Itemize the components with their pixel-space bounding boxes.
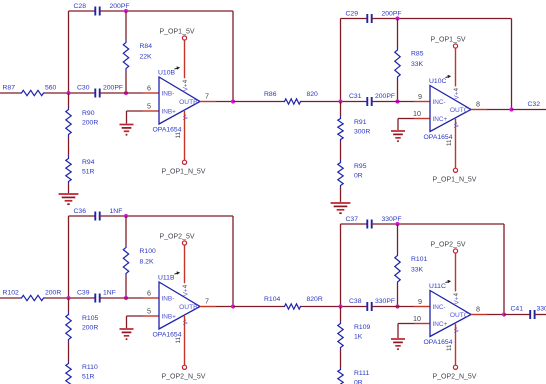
wire IN+ to ground stage 4 — [398, 323, 414, 325]
junction output node stage 4 — [502, 312, 506, 316]
svg-text:C32: C32 — [528, 101, 541, 108]
wire R85 bottom lead — [397, 80, 399, 102]
svg-text:1NF: 1NF — [110, 208, 123, 215]
svg-text:R90: R90 — [82, 110, 95, 117]
svg-text:300R: 300R — [354, 129, 370, 136]
power port circle P_OP2_5V stage 4 — [453, 249, 457, 253]
wire top feedback right segment stage 2 — [372, 18, 512, 20]
svg-text:R100: R100 — [140, 248, 156, 255]
resistor R84 — [123, 40, 128, 71]
svg-text:11: 11 — [446, 139, 453, 146]
ground chain stage 2 — [331, 202, 351, 204]
svg-text:V-: V- — [454, 327, 461, 333]
svg-text:INC-: INC- — [433, 99, 446, 106]
wire C39 to IN- pin — [100, 297, 143, 299]
junction output node stage 2 — [509, 107, 513, 111]
svg-text:1K: 1K — [354, 334, 363, 341]
capacitor C28 — [94, 7, 96, 16]
wire top feedback left segment stage 4 — [341, 223, 368, 225]
svg-text:10: 10 — [413, 314, 421, 323]
svg-text:C39: C39 — [77, 290, 90, 297]
wire V- pin stage 3 — [184, 316, 186, 365]
wire R100 top lead — [125, 216, 127, 245]
pin 5 IN+ stub — [143, 315, 159, 317]
svg-text:R87: R87 — [3, 85, 16, 92]
wire top feedback left segment stage 2 — [341, 18, 368, 20]
capacitor C38 — [366, 302, 368, 311]
svg-text:OUTC: OUTC — [450, 107, 469, 114]
svg-text:R104: R104 — [264, 296, 280, 303]
wire node vertical up stage 2 — [340, 19, 342, 102]
wire V- pin stage 2 — [455, 119, 457, 168]
svg-text:4: 4 — [453, 292, 460, 296]
svg-text:7: 7 — [205, 297, 209, 306]
svg-text:P_OP2_N_5V: P_OP2_N_5V — [433, 373, 477, 380]
node stage 1 input junction — [66, 91, 70, 95]
svg-text:200PF: 200PF — [375, 93, 395, 100]
svg-text:V+: V+ — [183, 83, 190, 91]
pin 10 IN+ stub — [414, 323, 430, 325]
pin 9 IN- stub — [414, 306, 430, 308]
wire top feedback left segment stage 1 — [69, 10, 96, 12]
node stage 4 input junction — [338, 304, 342, 308]
svg-text:R94: R94 — [82, 159, 95, 166]
svg-text:C38: C38 — [349, 298, 362, 305]
svg-text:INC+: INC+ — [433, 116, 448, 123]
op-amp U11C marker arrow — [446, 280, 451, 282]
wire top feedback right segment stage 3 — [100, 215, 233, 217]
wire C30 to IN- pin — [100, 92, 143, 94]
wire V- pin stage 4 — [455, 324, 457, 365]
power port circle P_OP1_5V stage 2 — [453, 44, 457, 48]
wire node down to R91 — [340, 102, 342, 117]
wire top feedback right segment stage 1 — [100, 10, 233, 12]
op-amp U10C triangle — [430, 86, 471, 132]
wire C31 to IN- pin — [372, 101, 414, 103]
wire IN+ to ground stage 3 — [127, 315, 144, 317]
svg-text:R105: R105 — [82, 315, 98, 322]
svg-text:P_OP1_N_5V: P_OP1_N_5V — [433, 176, 477, 183]
pin 5 IN+ stub — [143, 110, 159, 112]
svg-text:11: 11 — [175, 132, 182, 139]
svg-text:OUTB: OUTB — [179, 99, 198, 106]
svg-text:U10C: U10C — [429, 78, 446, 85]
svg-text:8: 8 — [476, 305, 480, 314]
svg-text:R91: R91 — [354, 119, 367, 126]
svg-text:INB+: INB+ — [162, 314, 177, 321]
junction R100 to IN- wire — [124, 296, 128, 300]
svg-text:U11B: U11B — [158, 275, 175, 282]
pin 10 IN+ stub — [414, 118, 430, 120]
svg-text:C37: C37 — [346, 216, 359, 223]
svg-text:V+: V+ — [454, 296, 461, 304]
wire R84 top lead — [125, 11, 127, 40]
svg-text:820: 820 — [307, 91, 319, 98]
ground IN+ stage 2 — [391, 130, 405, 132]
svg-text:R101: R101 — [411, 256, 427, 263]
resistor R111 — [338, 367, 343, 384]
junction top node stage 2 — [395, 16, 399, 20]
svg-text:33K: 33K — [411, 61, 424, 68]
svg-text:R95: R95 — [354, 163, 367, 170]
op-amp U11B marker arrow — [175, 272, 180, 274]
svg-text:8: 8 — [476, 100, 480, 109]
resistor R94 — [66, 156, 71, 184]
svg-text:4: 4 — [453, 87, 460, 91]
resistor R100 — [123, 245, 128, 276]
ground chain stage 1 — [59, 193, 79, 195]
wire R101 top lead — [397, 224, 399, 253]
resistor R102 — [20, 295, 45, 300]
svg-text:C36: C36 — [74, 208, 87, 215]
wire top feedback right segment stage 4 — [372, 223, 504, 225]
power port circle P_OP1_5V stage 1 — [182, 36, 186, 40]
capacitor C30 — [94, 89, 96, 98]
svg-text:R85: R85 — [411, 51, 424, 58]
resistor R87 — [20, 90, 45, 95]
svg-text:51R: 51R — [82, 374, 95, 381]
pin 8 OUT stub stage 2 — [471, 109, 487, 111]
svg-text:0R: 0R — [354, 380, 363, 384]
node stage 3 input junction — [66, 296, 70, 300]
junction R101 to IN- wire — [395, 304, 399, 308]
wire IN+ to ground stage 2 — [398, 118, 414, 120]
svg-text:V-: V- — [454, 122, 461, 128]
wire R101 bottom lead — [397, 285, 399, 307]
wire node down to R90 — [68, 93, 70, 107]
ground IN+ stage 1 — [119, 124, 133, 126]
op-amp U11B triangle — [159, 282, 200, 329]
pin 8 OUT stub stage 4 — [471, 314, 487, 316]
wire R94 to ground — [68, 184, 70, 193]
junction top node stage 3 — [124, 214, 128, 218]
wire node down to R109 — [340, 307, 342, 322]
power port circle P_OP1_N_5V stage 1 — [182, 160, 186, 164]
capacitor C37 — [366, 220, 368, 229]
svg-text:C31: C31 — [349, 93, 362, 100]
op-amp U10B triangle — [159, 77, 200, 124]
ground IN+ stage 4 — [391, 338, 405, 340]
svg-text:6: 6 — [147, 289, 151, 298]
pin 6 IN- stub — [143, 92, 159, 94]
resistor R109 — [338, 321, 343, 350]
svg-text:330PF: 330PF — [382, 216, 402, 223]
wire input net stage 3 — [0, 297, 20, 299]
svg-text:9: 9 — [418, 92, 422, 101]
junction top node stage 4 — [395, 222, 399, 226]
svg-text:200PF: 200PF — [110, 3, 130, 10]
wire V- pin stage 1 — [184, 111, 186, 160]
resistor R95 — [338, 160, 343, 188]
capacitor C29 — [366, 14, 368, 23]
svg-text:200PF: 200PF — [382, 11, 402, 18]
op-amp U10C marker arrow — [446, 75, 451, 77]
svg-text:C41: C41 — [511, 306, 524, 313]
resistor R101 — [395, 253, 400, 285]
svg-text:R102: R102 — [3, 290, 19, 297]
wire feedback vertical down stage 2 — [511, 19, 513, 110]
svg-text:C28: C28 — [74, 3, 87, 10]
wire input net stage 1 — [0, 92, 20, 94]
capacitor C39 — [94, 294, 96, 303]
wire R95 to ground — [340, 188, 342, 202]
op-amp U10B marker arrow — [175, 67, 180, 69]
wire V+ pin stage 1 — [184, 40, 186, 78]
wire node to C39 — [69, 297, 96, 299]
wire IN+ to ground stage 1 — [127, 110, 144, 112]
wire R85 top lead — [397, 19, 399, 48]
wire R86 to node stage 2 — [302, 101, 341, 103]
junction output node stage 3 — [231, 304, 235, 308]
ground IN+ stage 3 — [119, 328, 133, 330]
resistor R90 — [66, 107, 71, 137]
svg-text:OUTC: OUTC — [450, 312, 469, 319]
svg-text:1NF: 1NF — [103, 290, 116, 297]
wire feedback vertical down stage 4 — [503, 224, 505, 315]
svg-text:8.2K: 8.2K — [140, 259, 154, 266]
wire C38 to IN- pin — [372, 306, 414, 308]
capacitor C41 — [529, 310, 531, 319]
resistor R85 — [395, 48, 400, 80]
wire output node to edge (C32 net) — [512, 109, 546, 111]
wire output to feedback node stage 2 — [487, 109, 512, 111]
svg-text:V+: V+ — [183, 288, 190, 296]
svg-text:200PF: 200PF — [103, 85, 123, 92]
power port circle P_OP2_N_5V stage 4 — [453, 365, 457, 369]
wire V+ pin stage 3 — [184, 245, 186, 283]
wire node to C38 — [341, 306, 368, 308]
resistor R105 — [66, 312, 71, 342]
svg-text:INC-: INC- — [433, 304, 446, 311]
svg-text:4: 4 — [182, 79, 189, 83]
svg-text:330PF: 330PF — [537, 306, 546, 313]
resistor R104 — [283, 304, 302, 309]
power port circle P_OP2_N_5V stage 3 — [182, 365, 186, 369]
pin 7 OUT stub stage 1 — [200, 101, 216, 103]
svg-text:11: 11 — [175, 337, 182, 344]
svg-text:INB-: INB- — [162, 296, 175, 303]
wire output node to C41 — [504, 314, 530, 316]
capacitor C36 — [94, 212, 96, 221]
wire C41 to edge — [535, 314, 546, 316]
svg-text:7: 7 — [205, 92, 209, 101]
svg-text:P_OP2_N_5V: P_OP2_N_5V — [162, 373, 206, 380]
svg-text:U11C: U11C — [429, 283, 446, 290]
junction output node stage 1 — [231, 99, 235, 103]
svg-text:INC+: INC+ — [433, 321, 448, 328]
svg-text:R86: R86 — [264, 91, 277, 98]
wire R105 to R110 — [68, 342, 70, 361]
wire node vertical up stage 1 — [68, 11, 70, 93]
wire node down to R105 — [68, 298, 70, 312]
op-amp U11C triangle — [430, 291, 471, 337]
svg-text:R109: R109 — [354, 324, 370, 331]
svg-text:C30: C30 — [77, 85, 90, 92]
wire output to feedback node stage 1 — [216, 101, 233, 103]
resistor R110 — [66, 361, 71, 384]
pin 9 IN- stub — [414, 101, 430, 103]
junction top node stage 1 — [124, 9, 128, 13]
wire node vertical up stage 4 — [340, 224, 342, 307]
node stage 2 input junction — [338, 99, 342, 103]
svg-text:51R: 51R — [82, 169, 95, 176]
svg-text:P_OP2_5V: P_OP2_5V — [160, 233, 195, 240]
wire feedback vertical down stage 1 — [232, 11, 234, 102]
wire R90 to R94 — [68, 137, 70, 156]
wire R104 to node stage 4 — [302, 306, 341, 308]
svg-text:560: 560 — [45, 85, 57, 92]
svg-text:P_OP2_5V: P_OP2_5V — [431, 241, 466, 248]
svg-text:U10B: U10B — [158, 70, 175, 77]
svg-text:5: 5 — [147, 102, 151, 111]
wire R87 to node stage 1 — [45, 92, 69, 94]
svg-text:INB+: INB+ — [162, 109, 177, 116]
svg-text:4: 4 — [182, 284, 189, 288]
wire node vertical up stage 3 — [68, 216, 70, 298]
svg-text:R84: R84 — [140, 43, 153, 50]
svg-text:200R: 200R — [45, 290, 61, 297]
svg-text:22K: 22K — [140, 54, 153, 61]
wire R102 to node stage 3 — [45, 297, 69, 299]
resistor R91 — [338, 116, 343, 142]
svg-text:200R: 200R — [82, 325, 98, 332]
wire from previous stage output — [233, 306, 283, 308]
pin 6 IN- stub — [143, 297, 159, 299]
svg-text:V-: V- — [183, 114, 190, 120]
svg-text:5: 5 — [147, 307, 151, 316]
svg-text:INB-: INB- — [162, 91, 175, 98]
svg-text:V+: V+ — [454, 91, 461, 99]
wire R100 bottom lead — [125, 276, 127, 298]
wire feedback vertical down stage 3 — [232, 216, 234, 307]
svg-text:P_OP1_N_5V: P_OP1_N_5V — [162, 168, 206, 175]
svg-text:330PF: 330PF — [375, 298, 395, 305]
capacitor C31 — [366, 97, 368, 106]
svg-text:R110: R110 — [82, 364, 98, 371]
svg-text:9: 9 — [418, 297, 422, 306]
wire from previous stage output — [233, 101, 283, 103]
resistor R86 — [283, 99, 302, 104]
wire R109 to R111 — [340, 350, 342, 367]
junction R85 to IN- wire — [395, 99, 399, 103]
junction R84 to IN- wire — [124, 91, 128, 95]
wire V+ pin stage 4 — [455, 253, 457, 291]
wire R84 bottom lead — [125, 71, 127, 93]
wire node to C31 — [341, 101, 368, 103]
wire output to feedback node stage 4 — [487, 314, 504, 316]
svg-text:P_OP1_5V: P_OP1_5V — [160, 28, 195, 35]
wire output to feedback node stage 3 — [216, 306, 233, 308]
svg-text:P_OP1_5V: P_OP1_5V — [431, 36, 466, 43]
svg-text:820R: 820R — [307, 296, 323, 303]
power port circle P_OP2_5V stage 3 — [182, 241, 186, 245]
svg-text:6: 6 — [147, 84, 151, 93]
svg-text:33K: 33K — [411, 267, 424, 274]
power port circle P_OP1_N_5V stage 2 — [453, 168, 457, 172]
wire node to C30 — [69, 92, 96, 94]
svg-text:200R: 200R — [82, 120, 98, 127]
pin 7 OUT stub stage 3 — [200, 306, 216, 308]
wire V+ pin stage 2 — [455, 48, 457, 86]
svg-text:OUTB: OUTB — [179, 304, 198, 311]
svg-text:V-: V- — [183, 319, 190, 325]
svg-text:0R: 0R — [354, 173, 363, 180]
svg-text:R111: R111 — [354, 370, 369, 377]
svg-text:C29: C29 — [346, 11, 359, 18]
svg-text:10: 10 — [413, 109, 421, 118]
svg-text:11: 11 — [446, 344, 453, 351]
wire R91 to R95 — [340, 142, 342, 160]
wire top feedback left segment stage 3 — [69, 215, 96, 217]
